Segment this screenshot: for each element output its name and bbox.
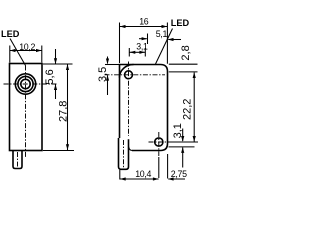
horizontal centerline xyxy=(4,83,59,85)
dim 3,5 lower arrow xyxy=(107,75,109,95)
fillet arc at mounting lug xyxy=(119,64,133,77)
svg-text:22,2: 22,2 xyxy=(182,99,194,120)
svg-text:2,8: 2,8 xyxy=(180,45,192,60)
bottom hole vertical centerline xyxy=(158,132,160,156)
sensing face middle circle xyxy=(18,76,33,91)
LED callout line xyxy=(10,39,26,66)
dim 22,2 line xyxy=(193,72,195,141)
svg-text:5,6: 5,6 xyxy=(44,69,56,84)
dim 10,4 extension left xyxy=(119,170,121,180)
stub right joint fillet xyxy=(129,147,133,151)
dim 2,75 right arrow xyxy=(168,178,185,180)
dim 10,2 extension lines xyxy=(10,46,42,63)
dim 3,1 right upper arrow xyxy=(182,129,184,142)
dim 5,1 left arrow xyxy=(139,38,147,40)
svg-text:16: 16 xyxy=(139,17,149,27)
sensor body front rect xyxy=(10,64,43,151)
top edge left extension (3,5) xyxy=(105,64,119,66)
stub centerline right view xyxy=(123,140,125,168)
svg-text:3,1: 3,1 xyxy=(136,41,148,51)
top extension line (right of left view) xyxy=(43,63,73,65)
body outline xyxy=(120,65,168,151)
dim 3,1 top line xyxy=(130,51,146,53)
dim 5,1 right arrow xyxy=(168,39,181,41)
svg-text:10,2: 10,2 xyxy=(19,42,35,52)
bottom hole xyxy=(155,138,163,146)
dim 27,8 line xyxy=(67,65,69,151)
svg-text:2,75: 2,75 xyxy=(171,169,187,179)
dim 5,6 upper arrow xyxy=(55,49,57,64)
dim 5,1 extension xyxy=(147,34,149,45)
bottom hole centerline right extension xyxy=(168,141,198,143)
bottom hole horizontal centerline xyxy=(149,141,167,143)
dim 3,1 right lower reference line xyxy=(169,146,195,148)
cable stub right view xyxy=(119,138,129,169)
bottom extension line xyxy=(43,150,74,152)
sensing face outer circle xyxy=(15,74,35,94)
svg-text:10,4: 10,4 xyxy=(135,169,151,179)
dim 16 extension lines xyxy=(120,23,168,64)
dim 2,8 extensions xyxy=(169,64,198,72)
right edge ext down xyxy=(167,154,169,179)
dim 10,2 arrows xyxy=(10,49,16,52)
LED callout line right xyxy=(156,29,173,65)
dim 3,1 top extension lines xyxy=(129,48,145,57)
svg-text:LED: LED xyxy=(171,18,190,28)
sensing face inner circle xyxy=(21,79,30,88)
hole top vertical centerline xyxy=(128,62,130,137)
dim 10,2 line xyxy=(10,50,42,52)
svg-text:5,1: 5,1 xyxy=(156,29,168,39)
cable stub bottom xyxy=(13,151,22,169)
dim 3,5 upper arrow xyxy=(107,57,109,64)
vertical centerline xyxy=(25,66,27,158)
svg-text:3,1: 3,1 xyxy=(172,123,184,138)
svg-text:LED: LED xyxy=(1,29,20,39)
bottom hole vertical ext down xyxy=(158,157,160,178)
svg-text:3,5: 3,5 xyxy=(97,67,109,82)
dim 10,4 line xyxy=(120,178,159,180)
dim 3,1 right lower arrow xyxy=(182,147,184,167)
hole top horizontal centerline xyxy=(105,74,166,76)
dim 5,6 lower arrow xyxy=(55,85,57,100)
mounting hole top xyxy=(125,71,133,79)
svg-text:27,8: 27,8 xyxy=(57,101,69,122)
stub centerline xyxy=(17,152,19,167)
dim 16 line xyxy=(120,26,168,28)
